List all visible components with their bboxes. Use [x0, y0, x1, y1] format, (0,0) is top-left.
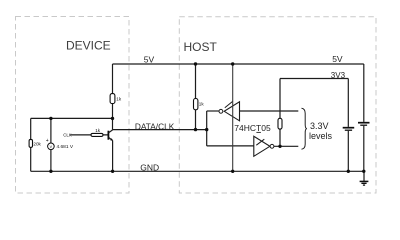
wire emitter to GND	[112, 141, 114, 172]
node 5V x pullup	[194, 62, 197, 65]
svg-text:HOST: HOST	[184, 40, 218, 54]
battery B2 5V	[363, 64, 365, 122]
wire host 1k branch	[195, 64, 197, 130]
wire top inverter input	[240, 110, 299, 112]
wire 3V3 pull-up branch	[279, 79, 281, 147]
wire 74HCT05 power line	[232, 64, 234, 171]
wire base	[71, 134, 108, 136]
svg-text:DEVICE: DEVICE	[66, 39, 111, 53]
resistor R pull-up 3V3	[278, 118, 282, 129]
voltmeter V1	[48, 143, 55, 150]
transistor Q1	[107, 131, 109, 140]
wire 5V rail	[113, 63, 364, 65]
svg-text:4.681 V: 4.681 V	[57, 144, 74, 150]
svg-text:74HCT05: 74HCT05	[234, 123, 271, 133]
host dashed box	[179, 17, 376, 193]
svg-text:DATA/CLK: DATA/CLK	[135, 121, 175, 131]
wire bottom inverter output	[274, 145, 298, 147]
wire device 5V vertical	[112, 64, 114, 130]
resistor R base 1k	[91, 133, 103, 136]
svg-text:1k: 1k	[199, 101, 205, 106]
svg-text:levels: levels	[309, 131, 333, 141]
node data x 1k	[194, 128, 197, 131]
node 5V x power	[231, 62, 234, 65]
svg-text:5V: 5V	[144, 55, 155, 65]
node device top x V branch	[49, 117, 52, 120]
node gnd x emitter	[111, 170, 114, 173]
svg-text:1k: 1k	[95, 128, 101, 133]
op-amp U1B inverter bottom	[254, 136, 270, 156]
device dashed box	[16, 17, 130, 194]
node out x pullup	[278, 145, 281, 148]
node gnd x V branch	[49, 170, 52, 173]
svg-text:5V: 5V	[332, 54, 343, 64]
node gnd x battery2	[362, 170, 365, 173]
wire DATA/CLK	[113, 129, 207, 131]
wire device top line	[31, 117, 113, 119]
svg-text:20k: 20k	[33, 142, 41, 147]
svg-text:1k: 1k	[116, 97, 122, 102]
wire device left vertical	[30, 118, 32, 171]
svg-text:+: +	[46, 138, 49, 144]
svg-text:3.3V: 3.3V	[310, 121, 329, 131]
resistor R pullup device	[110, 94, 115, 104]
node data x riser	[205, 128, 208, 131]
wire GND rail	[31, 170, 364, 172]
wire inverter riser	[206, 111, 208, 146]
svg-text:3V3: 3V3	[331, 71, 346, 80]
resistor R1 20k	[29, 139, 32, 147]
wire 3V3 rail	[280, 78, 348, 80]
battery B1 3V3	[347, 79, 349, 127]
node gnd x battery1	[347, 170, 350, 173]
svg-text:GND: GND	[140, 162, 159, 172]
wire V-source branch	[50, 118, 52, 171]
wire top inverter output	[207, 110, 219, 112]
node gnd x power	[231, 170, 234, 173]
wire bottom inverter input	[207, 145, 254, 147]
node device top x 5V vert	[111, 117, 114, 120]
resistor R 1k host	[194, 99, 198, 110]
op-amp U1A inverter top	[224, 102, 239, 121]
brace 3.3V levels	[302, 108, 307, 149]
ground	[363, 171, 365, 181]
